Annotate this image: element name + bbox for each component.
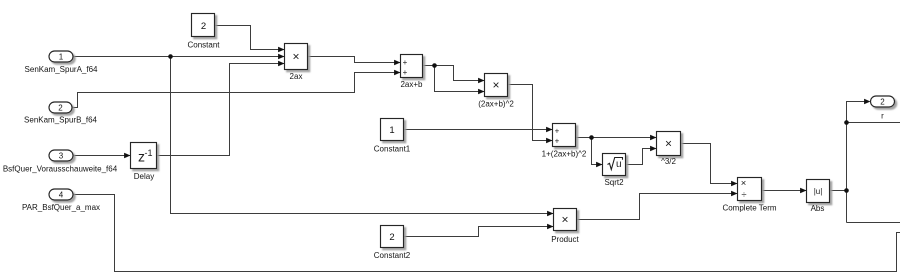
svg-text:PAR_BsfQuer_a_max: PAR_BsfQuer_a_max (22, 203, 100, 212)
node junction sum output (589, 135, 594, 140)
arrow into Complete Term in1 (731, 181, 737, 187)
svg-text:×: × (492, 78, 499, 92)
wire port1 to 2ax (73, 56, 284, 58)
inport 2 SenKam_SpurB_f64 (49, 102, 72, 113)
wire right bus vertical to outport (847, 102, 867, 223)
wire ^3/2 to Complete Term in1 (681, 144, 738, 184)
arrow into Delay (124, 153, 130, 159)
divide block Complete Term (738, 178, 762, 201)
svg-text:2ax: 2ax (290, 72, 303, 81)
sum block 2ax+b (401, 55, 423, 78)
svg-text:|u|: |u| (814, 187, 823, 196)
arrow into 2ax in3 (278, 61, 284, 67)
wire Constant to 2ax (215, 26, 285, 50)
inport 4 PAR_BsfQuer_a_max (49, 189, 73, 200)
arrow into Complete Term in2 (731, 191, 737, 197)
svg-text:1: 1 (389, 125, 394, 136)
svg-text:^3/2: ^3/2 (661, 157, 676, 166)
svg-text:Complete Term: Complete Term (722, 204, 776, 213)
product block (2ax+b)^2 (485, 74, 508, 97)
svg-text:×: × (292, 50, 299, 64)
svg-text:r: r (881, 112, 884, 121)
svg-text:Constant1: Constant1 (374, 145, 411, 154)
node junction port1 (168, 54, 173, 59)
node junction 2ax+b output (432, 63, 437, 68)
wire branch right edge lower (847, 222, 900, 224)
svg-text:÷: ÷ (741, 189, 746, 200)
svg-text:×: × (741, 178, 747, 189)
product block 2ax (285, 44, 308, 70)
svg-text:Constant: Constant (187, 41, 220, 50)
product block ^3/2 (657, 132, 681, 156)
wire 2ax+b branch to (2ax+b)^2 in2 (435, 66, 485, 92)
arrow into 2ax in2 (278, 54, 284, 60)
svg-text:Product: Product (551, 235, 579, 244)
svg-text:2: 2 (880, 98, 885, 107)
sum block 1+(2ax+b)^2 (553, 124, 576, 147)
wire sum branch to Sqrt2 (592, 138, 603, 165)
inport 3 BsfQuer_Vorausschauweite_f64 (49, 150, 73, 161)
wire port3 to Delay (73, 155, 130, 157)
arrow into (2ax+b)^2 in2 (478, 89, 484, 95)
svg-text:BsfQuer_Vorausschauweite_f64: BsfQuer_Vorausschauweite_f64 (3, 165, 118, 174)
svg-text:Constant2: Constant2 (374, 251, 411, 260)
svg-text:(2ax+b)^2: (2ax+b)^2 (478, 100, 514, 109)
node junction right bus (844, 120, 849, 125)
svg-text:×: × (561, 213, 568, 227)
svg-text:+: + (555, 127, 560, 136)
arrow into Product in2 (547, 224, 553, 230)
svg-text:Delay: Delay (134, 172, 154, 181)
svg-text:2: 2 (58, 104, 63, 113)
wire Constant2 to Product in2 (404, 227, 554, 237)
constant block Constant1 (381, 119, 404, 141)
wire sum to ^3/2 in1 (576, 137, 657, 139)
svg-text:+: + (403, 58, 408, 67)
wire 2ax+b to (2ax+b)^2 in1 (423, 66, 485, 81)
arrow into ^3/2 in2 (650, 146, 656, 152)
svg-text:u: u (616, 159, 622, 170)
wire Abs to junction (830, 190, 847, 192)
wire 2ax to 2ax+b (308, 57, 401, 63)
product block Product (554, 209, 577, 231)
svg-text:1+(2ax+b)^2: 1+(2ax+b)^2 (542, 150, 587, 159)
svg-text:SenKam_SpurA_f64: SenKam_SpurA_f64 (25, 65, 98, 74)
wire Complete Term to Abs (762, 190, 807, 192)
arrow into ^3/2 in1 (650, 135, 656, 141)
svg-text:2ax+b: 2ax+b (400, 80, 423, 89)
wire Constant1 to sum in1 (404, 129, 553, 131)
constant block Constant (192, 14, 215, 37)
svg-text:×: × (665, 137, 672, 151)
arrow into Product in1 (547, 211, 553, 217)
arrow into 2ax+b in1 (394, 60, 400, 66)
svg-text:2: 2 (389, 232, 394, 243)
wire Sqrt2 to ^3/2 in2 (626, 149, 657, 165)
arrow into 2ax in1 (278, 47, 284, 53)
wire port4 bottom long (73, 195, 900, 272)
arrow into Abs (800, 188, 806, 194)
svg-text:Sqrt2: Sqrt2 (604, 178, 624, 187)
sqrt block Sqrt2 (603, 154, 626, 176)
svg-text:4: 4 (59, 191, 64, 200)
arrow into 2ax+b in2 (394, 70, 400, 76)
node junction Abs output (844, 188, 849, 193)
svg-text:-1: -1 (144, 148, 152, 158)
arrow into outport r (864, 99, 870, 105)
svg-text:SenKam_SpurB_f64: SenKam_SpurB_f64 (24, 116, 97, 125)
outport 2 r (871, 96, 895, 107)
wire branch right edge upper (847, 122, 900, 124)
arrow into sum in2 (546, 138, 552, 144)
svg-text:1: 1 (59, 53, 64, 62)
delay block Delay (131, 143, 157, 169)
svg-text:+: + (555, 137, 560, 146)
abs block Abs (807, 180, 830, 203)
arrow into sum in1 (546, 127, 552, 133)
svg-text:+: + (403, 68, 408, 77)
arrow into (2ax+b)^2 in1 (478, 78, 484, 84)
wire (2ax+b)^2 to sum in2 (508, 85, 553, 141)
wire port2 to 2ax+b (72, 73, 400, 108)
inport 1 SenKam_SpurA_f64 (49, 51, 73, 62)
wire port1 branch to Product in1 (171, 57, 554, 214)
svg-text:3: 3 (59, 152, 64, 161)
wire Delay to 2ax (157, 64, 285, 156)
wire Product to Complete Term in2 (577, 194, 738, 220)
constant block Constant2 (381, 226, 404, 248)
svg-text:2: 2 (201, 21, 206, 32)
svg-text:Abs: Abs (811, 204, 825, 213)
arrow into Sqrt2 (596, 162, 602, 168)
